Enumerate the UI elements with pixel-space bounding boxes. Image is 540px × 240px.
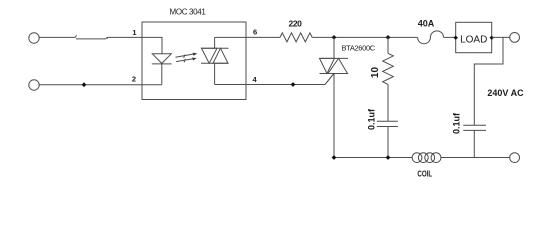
- node (triac bottom): [332, 155, 337, 160]
- junction dot: [82, 82, 87, 87]
- wire bottom rail right: [441, 157, 510, 159]
- LOAD box: [456, 22, 492, 52]
- capacitor C1 0.1uf (snubber): [377, 121, 398, 157]
- node (triac top): [332, 35, 337, 40]
- svg-text:MOC 3041: MOC 3041: [170, 7, 207, 16]
- resistor R2 10 (snubber): [383, 37, 394, 121]
- wire: [246, 36, 280, 38]
- wire: [108, 36, 143, 38]
- svg-text:2: 2: [132, 75, 136, 84]
- wire 240V AC drop: [474, 37, 503, 125]
- svg-text:LOAD: LOAD: [460, 35, 487, 46]
- svg-text:10: 10: [370, 67, 381, 79]
- wire: [39, 84, 162, 86]
- resistor R1 220: [280, 33, 312, 42]
- wire: [492, 36, 510, 38]
- wire bottom rail left: [334, 157, 412, 159]
- optocoupler U1 MOC 3041 package box: [142, 22, 246, 100]
- wire pin6: [215, 36, 246, 38]
- svg-text:220: 220: [289, 19, 303, 29]
- inductor L1 COIL: [412, 153, 441, 163]
- photo-triac (inside U1): [201, 37, 228, 84]
- capacitor C2 0.1uf: [463, 125, 486, 157]
- wire: [444, 36, 456, 38]
- switch S1: [75, 35, 108, 39]
- wire: [142, 37, 162, 53]
- terminal T1 (left top): [29, 33, 39, 43]
- light arrows: [176, 53, 198, 63]
- svg-text:240V AC: 240V AC: [487, 88, 524, 98]
- svg-text:0.1uf: 0.1uf: [367, 108, 377, 130]
- wire: [246, 84, 325, 86]
- svg-text:1: 1: [132, 28, 136, 37]
- LED D1: [152, 54, 172, 85]
- svg-text:40A: 40A: [418, 19, 435, 29]
- node (load left): [454, 36, 458, 40]
- fuse F1: [418, 31, 444, 44]
- wire pin4: [215, 84, 246, 86]
- svg-text:0.1uf: 0.1uf: [452, 112, 462, 134]
- wire: [39, 36, 75, 38]
- terminal T2 (left bottom): [29, 80, 39, 90]
- svg-text:COIL: COIL: [417, 170, 432, 179]
- node (snubber bottom): [386, 155, 391, 160]
- svg-text:6: 6: [253, 27, 257, 36]
- node (load right): [490, 36, 494, 40]
- svg-text:4: 4: [253, 75, 258, 84]
- junction dot: [291, 82, 296, 87]
- terminal T4 (right bottom): [510, 153, 520, 163]
- node (snubber top): [386, 35, 391, 40]
- triac Q1 BTA2600C: [320, 37, 349, 157]
- svg-text:BTA2600C: BTA2600C: [342, 43, 376, 52]
- wire top rail: [312, 36, 417, 38]
- terminal T3 (right top): [510, 33, 520, 43]
